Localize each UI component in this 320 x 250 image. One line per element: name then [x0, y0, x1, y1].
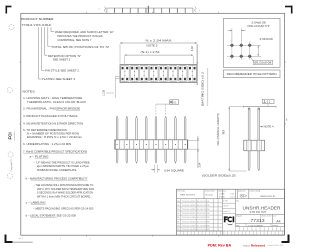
hole diameter boxed dim: [253, 60, 273, 64]
svg-text:Released: Released: [251, 244, 266, 248]
svg-text:2.54: 2.54: [199, 162, 202, 167]
svg-text:PLATING SEE SHEET 2: PLATING SEE SHEET 2: [42, 77, 76, 81]
svg-text:product family: product family: [250, 190, 261, 193]
registration circle 3: [8, 152, 13, 157]
svg-text:FCI: FCI: [8, 132, 13, 139]
svg-text:6. UNDERPLATING : 1.27µm Ni M: 6. UNDERPLATING : 1.27µm Ni MIN: [23, 142, 71, 146]
side view perpendicularity box: [263, 99, 275, 103]
svg-text:7. RoHS COMPATIBLE PRODUCT SP: 7. RoHS COMPATIBLE PRODUCT SPECIFICATION…: [23, 149, 87, 153]
dim 1.135 left: [115, 75, 119, 77]
svg-text:04-06-18: 04-06-18: [197, 209, 206, 211]
svg-text:01-02-08: 01-02-08: [197, 225, 206, 227]
end grayscale group: [12, 238, 32, 243]
svg-text:A4: A4: [276, 219, 280, 223]
svg-text:0.64 SQUARE: 0.64 SQUARE: [164, 170, 184, 173]
svg-text:projection: projection: [238, 190, 245, 193]
svg-text:B6: B6: [177, 217, 179, 219]
svg-text:(MATING SIDE) ±0.2: (MATING SIDE) ±0.2: [202, 71, 205, 106]
svg-text:NOTES:: NOTES:: [23, 90, 36, 94]
svg-text:WHEN REQUIRED, ADD SUFFIX LETT: WHEN REQUIRED, ADD SUFFIX LETTER “LF”: [55, 30, 114, 34]
svg-text:JW: JW: [207, 209, 210, 211]
svg-text:2.54±0.08: 2.54±0.08: [260, 38, 274, 41]
svg-text:(SOLDER SIDE)±0.25: (SOLDER SIDE)±0.25: [202, 174, 236, 177]
svg-text:Printed: Feb 17 2005: Printed: Feb 17 2005: [268, 244, 285, 247]
svg-text:± 0.38: ± 0.38: [219, 193, 224, 195]
true position box: [170, 100, 179, 105]
svg-text:N x 2.54 MAX: N x 2.54 MAX: [146, 39, 172, 43]
svg-text:3. PRODUCT PACKAGED IN POLY B: 3. PRODUCT PACKAGED IN POLY BAGS.: [23, 114, 78, 118]
hole diamonds: [227, 44, 254, 46]
svg-text:2. PIN MATERIAL : PHOSPHOR BR: 2. PIN MATERIAL : PHOSPHOR BRONZE: [23, 107, 80, 111]
svg-text:JW: JW: [207, 213, 210, 215]
svg-text:c – LABELING: c – LABELING: [26, 200, 46, 204]
svg-text:surface finish: surface finish: [205, 190, 215, 193]
svg-text:5 SECONDS IN A WAVE SOLDER APP: 5 SECONDS IN A WAVE SOLDER APPLICATION: [37, 191, 93, 195]
svg-text:B9: B9: [177, 205, 179, 207]
svg-text:JW: JW: [207, 205, 210, 207]
svg-text:SEE SHEET 2: SEE SHEET 2: [53, 57, 71, 61]
svg-text:03-12-05: 03-12-05: [197, 213, 206, 215]
svg-text:xx 0.5: xx 0.5: [230, 196, 235, 198]
svg-text:b – MANUFACTURING PROCESS CO: b – MANUFACTURING PROCESS COMPATIBILITY: [26, 176, 88, 180]
svg-text:04-11-02: 04-11-02: [197, 205, 206, 207]
title block mid rows above FCI: [222, 202, 235, 204]
svg-text:JW: JW: [207, 217, 210, 219]
svg-text:RECOMMENDED HOLE PATTERN: RECOMMENDED HOLE PATTERN: [227, 73, 277, 76]
dim 2.54 housing height: [187, 140, 199, 142]
callout tree lines: [37, 27, 39, 79]
svg-text:STR DR TMT: STR DR TMT: [250, 211, 268, 214]
svg-text:5. TO DETERMINE DIMENSIONS :: 5. TO DETERMINE DIMENSIONS :: [23, 128, 68, 132]
svg-text:d – LEGAL STATEMENT: SEE GS-: d – LEGAL STATEMENT: SEE GS-22-008: [26, 214, 77, 218]
corner mark top-left: [6, 6, 12, 8]
svg-text:1.135: 1.135: [102, 89, 105, 96]
hole pattern footer box: [223, 70, 280, 78]
title block top band: [177, 198, 286, 200]
svg-text:title: title: [236, 200, 239, 203]
svg-text:4: 4: [99, 9, 100, 11]
svg-text:Copyright FCI: Copyright FCI: [10, 159, 13, 172]
svg-text:NOTE 4: NOTE 4: [264, 126, 275, 129]
svg-text:PDM: Rev BA: PDM: Rev BA: [208, 244, 232, 248]
strip break marks: [104, 7, 106, 13]
svg-text:77313: 77313: [251, 218, 266, 223]
svg-text:∇ 0.2(1): ∇ 0.2(1): [206, 194, 213, 197]
svg-text:UNSHR.HEADER: UNSHR.HEADER: [243, 205, 281, 210]
title block outer: [177, 189, 285, 235]
hole diameter leader: [251, 58, 254, 62]
svg-text:T01-05-0247: T01-05-0247: [182, 201, 196, 203]
svg-text:dr JW: dr JW: [223, 199, 228, 202]
svg-text:EXAMPLE : 8 POS N x 2.54 = 2: EXAMPLE : 8 POS N x 2.54 = 20.32mm: [27, 135, 82, 139]
full-length header strip at top border: [107, 8, 115, 13]
type row: [236, 222, 286, 224]
svg-text:CUSTOMER: CUSTOMER: [248, 225, 263, 227]
svg-text:RETENTION OPTION “N”: RETENTION OPTION “N”: [48, 54, 81, 58]
svg-text:1. HOUSING MAT’L : HIGH TEMPE: 1. HOUSING MAT’L : HIGH TEMPERATURE: [23, 96, 82, 100]
svg-text:size: size: [273, 215, 276, 217]
svg-text:status:: status:: [243, 243, 251, 247]
svg-text:WITH A 1.6mm MIN THICK CIRCUIT: WITH A 1.6mm MIN THICK CIRCUIT BOARD.: [37, 194, 91, 198]
registration circle 4: [7, 173, 12, 178]
svg-text:B8: B8: [177, 209, 179, 211]
svg-text:02-07-19: 02-07-19: [197, 221, 206, 223]
corner mark bottom-left: [5, 241, 13, 243]
svg-text:NON-ACCUM TYP: NON-ACCUM TYP: [248, 25, 270, 28]
front view pins: [116, 116, 118, 140]
strip center mark: [147, 6, 149, 14]
side view datum line: [243, 106, 276, 108]
svg-text:Ø 0.25: Ø 0.25: [219, 196, 225, 198]
svg-text:COMPATIBLE, SEE NOTE 7: COMPATIBLE, SEE NOTE 7: [58, 38, 93, 42]
svg-text:77313-YXX-XXLF: 77313-YXX-XXLF: [22, 23, 52, 27]
svg-text:mat'l code: mat'l code: [177, 190, 185, 193]
front view housing: [115, 140, 187, 149]
svg-text:2µm MINIMUM MATTE TIN OVER 1.2: 2µm MINIMUM MATTE TIN OVER 1.27µm: [37, 164, 89, 168]
svg-text:T01-01-0112: T01-01-0112: [182, 225, 196, 227]
dim 0.64 SQUARE: [154, 165, 156, 173]
registration circle 1: [9, 24, 14, 29]
svg-text:B5: B5: [177, 221, 179, 223]
OAL dimension: [229, 106, 243, 108]
dim 2.54 row pitch: [253, 44, 261, 46]
svg-text:INDICATES THE PRODUCT IS RoHS: INDICATES THE PRODUCT IS RoHS: [58, 34, 103, 38]
svg-text:OAL (OVERALL LENGTH): OAL (OVERALL LENGTH): [217, 113, 220, 145]
svg-text:REF: REF: [223, 129, 225, 134]
svg-text:T01-03-0146: T01-03-0146: [182, 217, 196, 219]
svg-text:scale 2:1: scale 2:1: [223, 211, 230, 213]
svg-text:T01-04-0878: T01-04-0878: [182, 205, 196, 207]
svg-text:– MEETS PACKAGING SPECS AS PE: – MEETS PACKAGING SPECS AS PER GS-14-920: [33, 207, 94, 211]
FCI logo box: [235, 189, 237, 226]
svg-text:x 0.8: x 0.8: [230, 193, 234, 195]
svg-text:05-01-25: 05-01-25: [197, 201, 206, 203]
svg-text:4. 5N MIN RETENTION IN EITHER: 4. 5N MIN RETENTION IN EITHER DIRECTION: [23, 121, 83, 125]
svg-text:T01-03-0921: T01-03-0921: [182, 213, 196, 215]
svg-text:Ø1.02±0.08: Ø1.02±0.08: [254, 62, 272, 65]
corner mark top-right: [285, 6, 293, 8]
dwg no row: [236, 213, 286, 215]
revision table: [177, 230, 223, 232]
svg-text:B7: B7: [177, 213, 179, 215]
zone ticks: [86, 12, 88, 14]
svg-text:THERMOPLASTIC, UL94V-0 COLOR:: THERMOPLASTIC, UL94V-0 COLOR: BLACK: [27, 100, 86, 104]
sheet border frame: [21, 13, 285, 235]
svg-text:MINIMUM NICKEL UNDERPLATE.: MINIMUM NICKEL UNDERPLATE.: [37, 168, 77, 172]
svg-text:SEE NOTES: SEE NOTES: [180, 194, 196, 196]
svg-text:BERGSTIK: BERGSTIK: [261, 196, 277, 198]
dim 4.43 vertical: [196, 44, 198, 83]
svg-text:4.43: 4.43: [191, 46, 194, 51]
svg-text:– THE HOUSING WILL WITHSTAND: – THE HOUSING WILL WITHSTAND EXPOSURE TO: [33, 183, 93, 187]
recommended hole pattern box: [223, 18, 280, 67]
svg-text:N = NUMBER OF POSITIONS PER RO: N = NUMBER OF POSITIONS PER ROW: [27, 132, 80, 136]
svg-text:PRODUCT NUMBER: PRODUCT NUMBER: [21, 17, 54, 21]
top view position modules: [121, 66, 130, 82]
svg-text:dwg no: dwg no: [236, 215, 242, 217]
svg-text:260°C ±5°C SOLDER BATH TEMPERA: 260°C ±5°C SOLDER BATH TEMPERATURE FOR: [37, 187, 94, 191]
svg-text:– “LF” MEANS THE PRODUCT IS: – “LF” MEANS THE PRODUCT IS LEAD-FREE,: [33, 160, 90, 164]
svg-text:T01-04-0463: T01-04-0463: [182, 209, 196, 211]
svg-text:03-03-26: 03-03-26: [197, 217, 206, 219]
bottom-left gray bar: [12, 242, 32, 243]
svg-text:chk PD: chk PD: [223, 206, 229, 208]
svg-text:4: 4: [199, 10, 200, 12]
svg-text:TOTAL NB OF POSITIONS 04 TO 72: TOTAL NB OF POSITIONS 04 TO 72: [51, 45, 110, 49]
registration circle 2: [7, 87, 12, 92]
svg-text:(N-1) x 2.54: (N-1) x 2.54: [141, 50, 161, 54]
corner mark bottom-right: [282, 241, 290, 243]
svg-text:NOTE 5: NOTE 5: [147, 43, 159, 47]
svg-text:a – PLATING: a – PLATING: [30, 154, 49, 158]
svg-text:B4: B4: [177, 225, 179, 227]
svg-text:T01-02-0534: T01-02-0534: [182, 221, 196, 223]
checkered strips: [236, 226, 286, 228]
side view housing block: [244, 140, 265, 151]
svg-text:PIN STYLE SEE SHEET 2: PIN STYLE SEE SHEET 2: [45, 69, 80, 73]
side view pins: [248, 108, 250, 171]
top view body: [120, 65, 197, 83]
